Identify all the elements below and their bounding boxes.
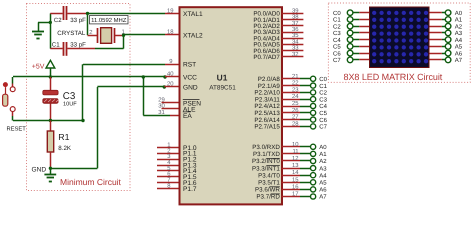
svg-text:P2.7/A15: P2.7/A15 xyxy=(254,124,280,131)
matrix terminal A7 (row input) xyxy=(429,57,463,64)
svg-text:A7: A7 xyxy=(455,57,463,64)
svg-text:C0: C0 xyxy=(333,10,341,17)
label 8X8 LED MATRIX Circuit xyxy=(344,72,443,82)
svg-text:A2: A2 xyxy=(455,23,463,30)
svg-text:A7: A7 xyxy=(319,194,327,201)
svg-text:15: 15 xyxy=(292,176,299,183)
node: caps common rail to ground xyxy=(49,13,52,48)
svg-text:VCC: VCC xyxy=(183,74,197,81)
svg-text:C5: C5 xyxy=(333,44,341,51)
svg-text:P3.2/INT0: P3.2/INT0 xyxy=(252,158,280,165)
svg-text:XTAL2: XTAL2 xyxy=(183,32,203,39)
svg-text:20: 20 xyxy=(167,81,174,88)
U1 pins 39-32 P0 stubs xyxy=(282,7,304,57)
svg-text:16: 16 xyxy=(292,183,299,190)
svg-text:U1: U1 xyxy=(217,72,228,82)
terminal A6 from U1 pin 16 P3.6 xyxy=(282,183,328,193)
svg-text:A3: A3 xyxy=(455,30,463,37)
matrix terminal A0 (row input) xyxy=(429,10,463,17)
terminal C2 from U1 pin 23 P2.2 xyxy=(282,86,328,96)
svg-text:C2: C2 xyxy=(54,17,62,24)
label GND xyxy=(32,166,47,173)
svg-text:12: 12 xyxy=(292,155,299,162)
svg-text:C0: C0 xyxy=(319,76,327,83)
U1 right pin names xyxy=(252,11,280,201)
wire +5V rail to U1 pin 40 VCC xyxy=(13,71,180,79)
svg-text:R1: R1 xyxy=(58,132,69,142)
svg-text:30: 30 xyxy=(158,102,165,109)
svg-text:10UF: 10UF xyxy=(63,102,77,108)
label CRYSTAL xyxy=(57,30,86,37)
svg-text:31: 31 xyxy=(158,109,165,116)
terminal C5 from U1 pin 26 P2.5 xyxy=(282,107,328,117)
U1 left pin names xyxy=(183,11,203,193)
resistor R1 8.2K xyxy=(47,121,72,169)
svg-text:C2: C2 xyxy=(319,90,327,97)
svg-text:AT89C51: AT89C51 xyxy=(209,85,236,92)
wire ground to U1 pin 20 GND xyxy=(50,81,179,169)
svg-text:+5V: +5V xyxy=(32,64,45,71)
svg-text:GND: GND xyxy=(183,84,198,91)
svg-text:35: 35 xyxy=(292,32,299,39)
svg-text:A6: A6 xyxy=(455,50,463,57)
matrix terminal C2 (column input) xyxy=(333,23,370,30)
svg-text:36: 36 xyxy=(292,26,299,33)
svg-text:14: 14 xyxy=(292,169,299,176)
svg-text:A5: A5 xyxy=(455,44,463,51)
terminal A2 from U1 pin 12 P3.2 xyxy=(282,155,328,165)
matrix terminal C5 (column input) xyxy=(333,44,370,51)
svg-text:9: 9 xyxy=(169,58,172,65)
matrix terminal C3 (column input) xyxy=(333,30,370,37)
svg-text:C7: C7 xyxy=(333,57,341,64)
svg-text:38: 38 xyxy=(292,14,299,21)
svg-text:23: 23 xyxy=(292,86,299,93)
U1 pin 30 ALE stub xyxy=(158,102,179,109)
matrix terminal C1 (column input) xyxy=(333,17,370,24)
wire XTAL1 to U1 pin 19 xyxy=(88,8,180,15)
svg-text:C2: C2 xyxy=(333,23,341,30)
terminal A7 from U1 pin 17 P3.7 xyxy=(282,191,328,201)
terminal C1 from U1 pin 22 P2.1 xyxy=(282,80,328,90)
svg-text:P3.3/INT1: P3.3/INT1 xyxy=(252,165,280,172)
svg-text:39: 39 xyxy=(292,7,299,14)
terminal A5 from U1 pin 15 P3.5 xyxy=(282,176,328,186)
wire XTAL2 to U1 pin 18 xyxy=(124,29,180,36)
svg-text:C6: C6 xyxy=(319,117,327,124)
wire +5V to U1 pin 31 EA xyxy=(142,75,180,116)
svg-text:33 pF: 33 pF xyxy=(70,41,86,48)
svg-text:37: 37 xyxy=(292,20,299,27)
wire RST to U1 pin 9 xyxy=(83,58,180,65)
U1 pins 1-8 P1.0-P1.7 stubs xyxy=(157,141,180,189)
terminal C0 from U1 pin 21 P2.0 xyxy=(282,73,328,83)
dashed boundary of Minimum Circuit block xyxy=(27,4,131,191)
svg-text:C3: C3 xyxy=(63,91,76,102)
svg-text:P3.5/T1: P3.5/T1 xyxy=(258,180,280,187)
svg-text:C7: C7 xyxy=(319,124,327,131)
junction +5V / C3 xyxy=(49,75,52,78)
svg-text:C3: C3 xyxy=(319,96,327,103)
LED matrix display (8x8 dots) xyxy=(370,7,430,68)
capacitor C1 33pF xyxy=(50,41,95,55)
svg-text:GND: GND xyxy=(32,166,47,173)
svg-text:P3.7/RD: P3.7/RD xyxy=(256,194,280,201)
svg-text:11.0592 MHZ: 11.0592 MHZ xyxy=(91,17,127,24)
matrix terminal A2 (row input) xyxy=(429,23,463,30)
svg-text:18: 18 xyxy=(167,29,174,36)
svg-text:P3.0/RXD: P3.0/RXD xyxy=(252,144,280,151)
terminal C6 from U1 pin 27 P2.6 xyxy=(282,114,328,124)
svg-text:P3.4/T0: P3.4/T0 xyxy=(258,172,280,179)
svg-text:C5: C5 xyxy=(319,110,327,117)
terminal C4 from U1 pin 25 P2.4 xyxy=(282,100,328,110)
svg-text:A4: A4 xyxy=(455,37,463,44)
svg-text:34: 34 xyxy=(292,38,299,45)
svg-text:CRYSTAL: CRYSTAL xyxy=(57,30,86,37)
svg-text:A1: A1 xyxy=(319,151,327,158)
svg-text:22: 22 xyxy=(292,80,299,87)
matrix terminal A3 (row input) xyxy=(429,30,463,37)
svg-text:33: 33 xyxy=(292,45,299,52)
matrix terminal C4 (column input) xyxy=(333,37,370,44)
svg-text:2: 2 xyxy=(89,29,92,36)
svg-text:RST: RST xyxy=(183,62,196,69)
matrix terminal C0 (column input) xyxy=(333,10,370,17)
svg-text:11: 11 xyxy=(292,148,298,155)
svg-text:C1: C1 xyxy=(52,41,60,48)
dashed boundary of 8X8 LED MATRIX block xyxy=(328,3,470,82)
svg-text:21: 21 xyxy=(292,73,299,80)
svg-text:A1: A1 xyxy=(455,17,463,24)
svg-text:A4: A4 xyxy=(319,172,327,179)
svg-text:P1.7: P1.7 xyxy=(183,186,197,193)
IC U1 AT89C51 body xyxy=(180,7,283,204)
svg-text:32: 32 xyxy=(292,51,299,58)
svg-text:33 pF: 33 pF xyxy=(70,17,86,24)
svg-text:C6: C6 xyxy=(333,50,341,57)
svg-text:RESET: RESET xyxy=(7,126,27,133)
U1 pin 29 PSEN stub xyxy=(158,96,179,103)
matrix terminal A1 (row input) xyxy=(429,17,463,24)
power +5V xyxy=(32,60,55,77)
svg-text:C1: C1 xyxy=(333,17,341,24)
matrix terminal A6 (row input) xyxy=(429,50,463,57)
terminal A3 from U1 pin 13 P3.3 xyxy=(282,162,328,172)
label RESET xyxy=(7,126,27,133)
node B: XTAL2 / crystal pin1 / C1 junction xyxy=(95,34,125,49)
ground (reset network) xyxy=(44,167,56,182)
svg-text:13: 13 xyxy=(292,162,299,169)
node A: XTAL1 / crystal pin2 / C2 junction xyxy=(86,12,89,36)
matrix terminal C7 (column input) xyxy=(333,57,370,64)
label Minimum Circuit xyxy=(60,177,122,187)
svg-text:19: 19 xyxy=(167,8,174,15)
matrix terminal A4 (row input) xyxy=(429,37,463,44)
svg-text:25: 25 xyxy=(292,100,299,107)
terminal A1 from U1 pin 11 P3.1 xyxy=(282,148,328,158)
terminal A4 from U1 pin 14 P3.4 xyxy=(282,169,328,179)
svg-text:40: 40 xyxy=(167,71,174,78)
terminal C7 from U1 pin 28 P2.7 xyxy=(282,120,328,130)
matrix terminal A5 (row input) xyxy=(429,44,463,51)
ground (crystal caps) xyxy=(32,22,50,38)
svg-text:XTAL1: XTAL1 xyxy=(183,11,203,18)
matrix terminal C6 (column input) xyxy=(333,50,370,57)
svg-text:Minimum Circuit: Minimum Circuit xyxy=(60,177,122,187)
svg-text:C3: C3 xyxy=(333,30,341,37)
svg-text:26: 26 xyxy=(292,107,299,114)
svg-text:27: 27 xyxy=(292,114,299,121)
svg-text:10: 10 xyxy=(292,141,299,148)
svg-text:17: 17 xyxy=(292,191,299,198)
terminal A0 from U1 pin 10 P3.0 xyxy=(282,141,328,151)
crystal X1 11.0592 MHZ xyxy=(88,16,129,44)
svg-text:8.2K: 8.2K xyxy=(58,145,72,152)
svg-text:24: 24 xyxy=(292,93,299,100)
terminal C3 from U1 pin 24 P2.3 xyxy=(282,93,328,103)
svg-text:29: 29 xyxy=(158,96,165,103)
svg-text:A2: A2 xyxy=(319,158,327,165)
svg-text:C4: C4 xyxy=(319,103,327,110)
capacitor C3 10UF xyxy=(43,77,77,121)
svg-text:P3.1/TXD: P3.1/TXD xyxy=(253,151,280,158)
wire RST node xyxy=(13,64,85,122)
svg-text:A5: A5 xyxy=(319,180,327,187)
svg-text:A3: A3 xyxy=(319,165,327,172)
svg-text:P0.7/AD7: P0.7/AD7 xyxy=(253,54,280,61)
capacitor C2 33pF xyxy=(50,6,87,24)
svg-text:28: 28 xyxy=(292,120,299,127)
svg-text:8X8 LED MATRIX Circuit: 8X8 LED MATRIX Circuit xyxy=(344,72,443,82)
svg-text:A6: A6 xyxy=(319,187,327,194)
svg-text:C1: C1 xyxy=(319,83,327,90)
svg-text:A0: A0 xyxy=(319,144,327,151)
svg-text:EA: EA xyxy=(183,113,192,120)
push button RESET xyxy=(3,77,16,121)
svg-text:P3.6/WR: P3.6/WR xyxy=(255,187,280,194)
svg-text:C4: C4 xyxy=(333,37,341,44)
svg-text:A0: A0 xyxy=(455,10,463,17)
